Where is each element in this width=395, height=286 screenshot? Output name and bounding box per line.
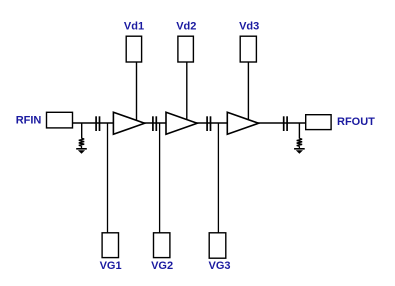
wire [136,62,138,122]
source box VG3 [209,233,226,258]
wire [247,62,249,121]
capacitor C4 [284,116,287,131]
amplifier A1 [113,112,144,134]
svg-text:VG3: VG3 [208,260,230,272]
amplifier A2 [166,112,197,134]
wire [298,123,300,139]
port box RFOUT [306,115,331,130]
capacitor C3 [207,116,210,131]
ground (output) [294,149,305,154]
wire [186,62,188,121]
svg-text:RFOUT: RFOUT [337,116,375,128]
resistor R2 (output shunt) [297,139,302,147]
source box VG2 [154,233,170,258]
svg-text:Vd1: Vd1 [124,20,144,32]
source box Vd1 [126,36,141,62]
svg-text:VG2: VG2 [151,260,173,272]
resistor R1 (input shunt) [79,138,84,146]
wire [107,123,109,233]
source box Vd2 [178,36,194,62]
source box VG1 [102,233,118,258]
port box RFIN [47,112,73,128]
svg-text:Vd2: Vd2 [176,20,196,32]
wire [73,122,306,124]
svg-text:Vd3: Vd3 [239,20,259,32]
wire [217,123,219,233]
wire [81,146,83,149]
source box Vd3 [240,36,256,62]
svg-text:VG1: VG1 [100,260,122,272]
wire [298,146,300,148]
wire [159,123,161,233]
svg-text:RFIN: RFIN [16,115,42,127]
amplifier A3 [227,112,258,134]
capacitor C2 [153,116,156,131]
capacitor C1 [96,116,99,131]
wire [81,123,83,139]
ground (input) [76,149,87,154]
